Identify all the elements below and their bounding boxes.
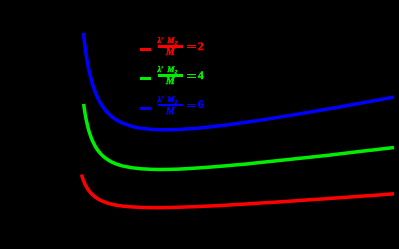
legend row 1 fraction bar	[158, 45, 183, 48]
legend row 3 value 6	[198, 97, 204, 112]
legend row 1 (red) dash sample	[140, 48, 151, 51]
legend row 3 equals sign	[187, 104, 197, 107]
legend row 3 denominator M	[165, 106, 176, 117]
legend row 3 (blue) dash sample	[140, 107, 151, 110]
red curve lambda' M2/M = 2	[82, 175, 395, 208]
legend row 2 fraction bar	[158, 74, 183, 77]
legend row 1 denominator M	[165, 47, 176, 58]
legend row 2 equals sign	[187, 74, 197, 77]
legend row 2 denominator M	[165, 76, 176, 87]
legend row 1 numerator lambda' M_2	[158, 36, 178, 47]
legend row 2 numerator lambda' M_2	[158, 65, 178, 76]
blue curve lambda' M2/M = 6	[83, 33, 394, 130]
legend row 1 value 2	[198, 39, 204, 54]
legend row 3 fraction bar	[158, 104, 183, 107]
legend row 2 (green) dash sample	[140, 77, 151, 80]
legend row 3 numerator lambda' M_2	[158, 95, 178, 106]
legend row 1 equals sign	[187, 45, 197, 48]
legend row 2 value 4	[198, 68, 204, 83]
green curve lambda' M2/M = 4	[84, 104, 394, 170]
